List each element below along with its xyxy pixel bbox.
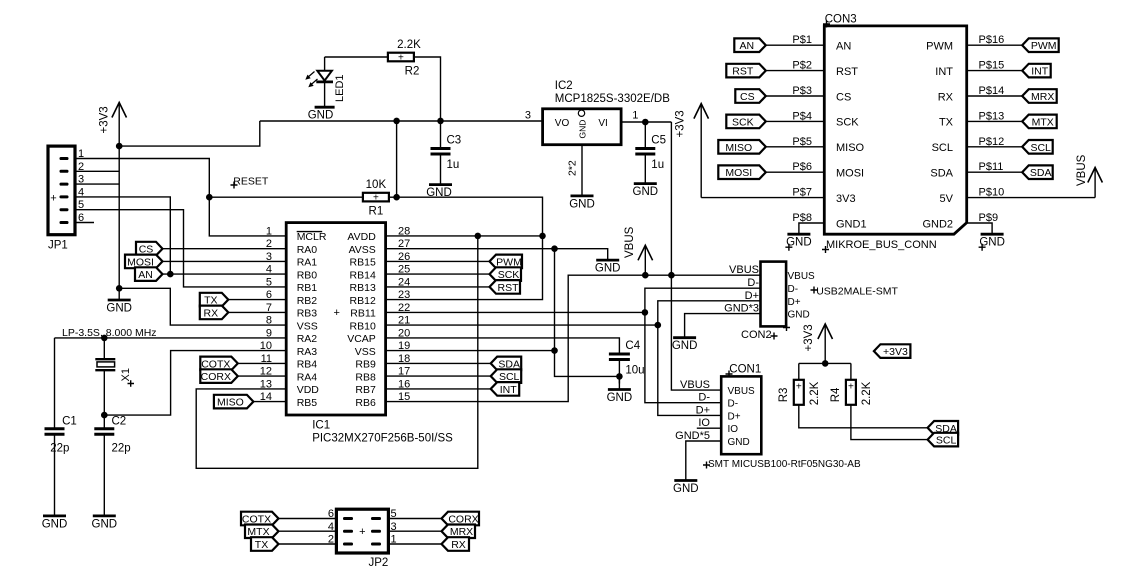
flag INT (RB7) [491,382,520,396]
svg-text:C3: C3 [447,135,462,147]
junction AVDD/VDD loop [475,233,482,240]
svg-text:MOSI: MOSI [725,167,752,179]
junction VSS pin19 node [551,347,558,354]
wire osc2 to IC1 RA3 pin10 [104,351,286,416]
capacitor C2 22p [94,429,114,435]
svg-text:22p: 22p [50,442,69,454]
wire VBUS riser to IC2 VI [670,122,672,275]
svg-text:MCP1825S-3302E/DB: MCP1825S-3302E/DB [555,93,670,105]
flag SDA (CON3) [1022,165,1052,179]
junction D- node [642,309,649,316]
wire R3 to SDA flag [799,405,928,428]
svg-text:RST: RST [498,282,520,294]
wire CON1 IO stub [697,427,721,429]
wire osc1 down to C1 [54,338,56,429]
capacitor C3 1u [431,135,462,172]
junction osc1/X1 [101,335,108,342]
svg-text:GND*5: GND*5 [675,430,710,442]
svg-text:PIC32MX270F256B-50I/SS: PIC32MX270F256B-50I/SS [312,433,453,445]
svg-text:CS: CS [836,91,851,103]
wire JP2 pin5 to CORX [388,518,441,520]
wire RB10 D+ net [386,324,658,326]
svg-text:2.2K: 2.2K [861,381,873,405]
wire +3V3 to R3 [799,362,851,364]
flag TX (to RB2) [200,293,229,307]
svg-text:SDA: SDA [1030,167,1052,179]
svg-text:PWM: PWM [926,41,953,53]
svg-text:RB4: RB4 [297,359,318,371]
wire riser R1 to +3V3 top rail [396,121,398,197]
wire CON3 P$2 [766,70,825,72]
flag MTX (CON3) [1022,115,1056,129]
svg-text:2.2K: 2.2K [397,39,421,51]
ground below IC2 [569,196,595,211]
wire R3 top stub [798,363,800,380]
wire IC1 VDD pin13 +3V3 return loop [196,236,478,468]
svg-text:RB10: RB10 [350,320,376,332]
wire CON3 P$14 [967,95,1023,97]
flag SDA (pullup) [928,421,959,435]
flag MRX (CON3) [1022,89,1056,103]
svg-text:3: 3 [525,110,531,122]
wire +3V3 to CON3 3V3 pin [701,197,824,199]
svg-text:+3V3: +3V3 [675,110,687,137]
ground CON1 [673,481,699,496]
wire R2 right to rail [414,57,441,121]
svg-text:MCLR: MCLR [297,231,327,243]
ground CON3 GND1 [785,234,811,251]
wire MISO to IC1 pin14 [253,401,286,403]
svg-text:CON1: CON1 [729,364,761,376]
svg-text:RB5: RB5 [297,397,318,409]
wire D+ up to CON2 [658,301,761,325]
wire JP2 pin3 to MRX [388,530,441,532]
svg-text:VBUS: VBUS [680,379,710,391]
wire IC1 AVDD pin28 to +3V3 [386,235,543,237]
svg-text:RB12: RB12 [350,295,376,307]
svg-text:MISO: MISO [836,142,865,154]
svg-text:P$10: P$10 [979,187,1005,199]
svg-text:SCK: SCK [732,116,754,128]
svg-text:TX: TX [255,539,268,551]
svg-text:+: + [359,526,365,538]
svg-text:USB2MALE-SMT: USB2MALE-SMT [816,286,898,298]
svg-text:GND: GND [672,340,698,352]
svg-text:RA3: RA3 [297,346,318,358]
svg-text:+: + [333,307,339,319]
svg-text:SCK: SCK [836,117,859,129]
wire CON3 P$16 [967,44,1023,46]
wire CON3 P$9 to ground [967,223,992,234]
svg-text:JP1: JP1 [48,240,68,252]
flag SDA (RB9) [491,357,522,371]
svg-text:VBUS: VBUS [728,386,756,397]
svg-text:LED1: LED1 [334,74,346,102]
svg-text:SMT MICUSB100-RtF05NG30-AB: SMT MICUSB100-RtF05NG30-AB [708,459,861,470]
power +3V3 (top left) [99,103,127,147]
flag SCL (pullup) [928,433,959,447]
svg-text:P$3: P$3 [792,85,812,97]
svg-text:P$11: P$11 [979,161,1004,173]
flag RX (to RB3) [200,306,229,320]
flag +3V3 (net label) [874,344,911,358]
flag MISO (to RB5) [214,395,254,409]
label MIKROE_BUS_CONN [822,246,829,253]
flag TX (JP2) [251,537,279,551]
svg-text:RB14: RB14 [350,269,376,281]
resistor R1 10K [363,179,389,218]
svg-text:+3V3: +3V3 [883,346,908,358]
wire CON2 GND*3 to ground [685,314,761,338]
ground below LED1 [315,106,335,108]
svg-text:+3V3: +3V3 [803,324,815,351]
svg-text:D+: D+ [745,290,759,302]
svg-text:GND: GND [607,392,633,404]
svg-text:AVSS: AVSS [349,244,376,256]
svg-text:RX: RX [938,91,954,103]
wire RESET down to IC1 MCLR [209,197,286,236]
svg-text:VBUS: VBUS [1076,154,1088,186]
svg-text:RA4: RA4 [297,371,318,383]
junction D+ node [655,322,662,329]
wire RB8 to SCL flag [386,375,491,377]
svg-text:GND: GND [788,310,810,321]
label USB2MALE-SMT [811,287,818,294]
svg-text:MTX: MTX [1032,116,1054,128]
svg-text:JP2: JP2 [369,557,389,569]
flag SCK (CON3) [726,115,766,129]
svg-text:GND1: GND1 [836,218,867,230]
flag PWM (RB15) [490,255,523,269]
svg-text:R4: R4 [830,387,842,402]
flag CS (CON3) [735,89,766,103]
wire IC2 VI pin1 to VBUS riser [621,121,671,123]
wire RB6 pin15 to VBUS rail [386,275,761,401]
wire AVSS riser to VSS pin19 [386,249,555,351]
wire R4 to SCL flag [851,405,928,440]
flag SCK (RB14) [490,267,522,281]
svg-text:AN: AN [740,40,755,52]
wire RB7 to INT flag [386,388,491,390]
svg-text:RB13: RB13 [350,282,376,294]
svg-text:GND: GND [595,263,621,275]
svg-text:GND: GND [308,110,334,122]
svg-text:VI: VI [598,118,607,129]
svg-text:P$1: P$1 [792,34,812,46]
svg-text:1u: 1u [651,159,664,171]
svg-text:MIKROE_BUS_CONN: MIKROE_BUS_CONN [826,239,937,251]
flag CS (to RA0) [136,242,163,256]
svg-text:GND: GND [426,187,452,199]
power +3V3 (R3/R4) [803,324,833,363]
svg-text:RB8: RB8 [355,371,376,383]
svg-text:+: + [796,381,802,392]
power +3V3 (near CON3) [675,104,709,198]
svg-text:SCL: SCL [936,435,957,447]
capacitor C5 1u [635,135,666,172]
svg-text:3V3: 3V3 [836,193,856,205]
svg-text:P$4: P$4 [792,110,812,122]
wire JP1 pin2 to +3V3 [75,170,119,172]
svg-text:CS: CS [740,91,755,103]
power VBUS (middle) [624,226,653,275]
junction VBUS arrow node [642,272,649,279]
svg-text:RX: RX [204,307,219,319]
wire TX to JP2 pin2 [279,543,337,545]
wire AN to IC1 pin4 [163,273,287,275]
svg-text:1: 1 [266,225,272,237]
junction VBUS IC2/CON1 node [668,272,675,279]
flag MOSI (to RA1) [125,255,163,269]
wire R1 to +3V3 riser [389,196,397,198]
wire CON3 P$3 [766,95,825,97]
flag PWM (CON3) [1022,38,1058,52]
wire X1 top [103,338,105,359]
svg-text:10u: 10u [625,365,644,377]
resistor R2 2.2K [388,39,421,78]
wire TX to IC1 pin6 [228,299,286,301]
svg-text:+: + [373,193,379,204]
wire RB11 D- net [386,311,645,313]
svg-text:GND: GND [633,186,659,198]
wire CON3 P$11 [967,171,1023,173]
wire RESET to R1 [209,196,363,198]
svg-text:RB3: RB3 [297,308,318,320]
svg-text:AN: AN [836,41,851,53]
wire MOSI to IC1 pin3 [163,260,287,262]
label SMT MICUSB100-RtF05NG30-AB [703,462,710,469]
svg-text:P$12: P$12 [979,136,1005,148]
flag AN (to RB0) [135,267,163,281]
svg-text:RB7: RB7 [355,384,376,396]
flag SCL (CON3) [1022,140,1052,154]
wire MTX to JP2 pin4 [279,530,337,532]
wire RB9 to SDA flag [386,362,491,364]
svg-text:P$2: P$2 [792,60,812,72]
resistor R4 2.2K [830,380,873,406]
svg-text:RB6: RB6 [355,397,376,409]
svg-text:GND: GND [728,437,750,448]
flag RST (RB13) [490,280,521,294]
svg-text:VBUS: VBUS [788,271,816,282]
wire COTX to IC1 pin11 [238,362,286,364]
svg-text:+: + [50,193,56,205]
svg-text:MOSI: MOSI [836,168,864,180]
flag MTX (JP2) [245,525,279,539]
svg-text:C1: C1 [62,416,77,428]
svg-text:IC1: IC1 [312,420,330,432]
wire C3 top [440,121,442,149]
svg-text:P$14: P$14 [979,85,1005,97]
wire +3V3 to rail riser [119,121,260,146]
junction AVSS/VSS riser [551,245,558,252]
regulator IC2 MCP1825S [543,109,622,145]
wire CON1 GND*5 to ground [686,441,721,481]
junction rail/R1 riser [393,118,400,125]
flag CORX (JP2) [442,512,480,526]
wire RA2/osc line [55,337,287,339]
flag COTX (JP2) [241,512,279,526]
flag CORX (to RA4) [200,369,238,383]
ground AVSS [595,260,621,275]
svg-text:22p: 22p [112,442,131,454]
wire CON3 P$6 [766,171,825,173]
svg-text:2.2K: 2.2K [809,381,821,405]
svg-text:VDD: VDD [297,384,320,396]
junction C5 node [642,119,649,126]
svg-text:TX: TX [939,117,954,129]
svg-text:P$15: P$15 [979,60,1005,72]
svg-text:VCAP: VCAP [347,333,376,345]
svg-text:GND: GND [577,120,587,139]
svg-text:VSS: VSS [355,346,376,358]
wire VCAP pin20 to C4 [386,338,620,354]
capacitor C4 10u [609,340,645,377]
wire CON3 P$1 [766,44,825,46]
svg-text:GND: GND [106,303,132,315]
wire RX to IC1 pin7 [228,311,286,313]
svg-text:PWM: PWM [1031,40,1057,52]
svg-text:RB11: RB11 [350,308,376,320]
svg-text:RA0: RA0 [297,244,318,256]
svg-text:RB9: RB9 [355,359,376,371]
svg-text:RST: RST [732,66,754,78]
svg-text:GND2: GND2 [922,218,953,230]
svg-text:RESET: RESET [233,176,269,188]
svg-text:X1: X1 [120,368,132,381]
svg-text:D-: D- [698,392,710,404]
svg-text:RX: RX [451,539,466,551]
ground below C3 [429,154,452,185]
svg-text:C2: C2 [112,416,127,428]
wire R4 top stub [850,363,852,380]
svg-text:RA2: RA2 [297,333,318,345]
svg-text:P$5: P$5 [792,136,812,148]
svg-text:P$13: P$13 [979,110,1005,122]
connector CON3 MIKROE_BUS_CONN [824,26,966,234]
wire CON3 P$10 to VBUS [967,197,1095,199]
ground CON3 GND2 [979,234,1005,251]
flag SCL (RB8) [491,369,522,383]
wire C1 to ground [54,434,56,516]
svg-text:MRX: MRX [1031,91,1054,103]
svg-text:P$8: P$8 [792,212,812,224]
ground below C4 [607,376,633,404]
junction X1/C2/RA3 [101,412,108,419]
svg-text:5V: 5V [940,193,954,205]
svg-text:RST: RST [836,66,858,78]
wire JP1 pin4 to AN net [75,197,170,274]
ground below C5 [633,154,659,198]
wire C4 bottom [618,360,620,384]
svg-text:VBUS: VBUS [624,226,636,258]
wire +3V3 vertical at JP1 (pin2 up / pin3 down to GND) [118,146,120,288]
svg-text:RB2: RB2 [297,295,318,307]
flag MRX (JP2) [442,525,476,539]
wire CON3 P$15 [967,70,1023,72]
svg-text:1: 1 [632,110,638,122]
svg-text:INT: INT [935,66,953,78]
svg-text:INT: INT [500,384,518,396]
flag RST (CON3) [726,64,766,78]
wire COTX to JP2 pin6 [279,518,337,520]
svg-text:D+: D+ [696,404,710,416]
wire CON3 P$4 [766,120,825,122]
svg-text:C5: C5 [651,135,666,147]
svg-text:SCL: SCL [932,142,953,154]
svg-text:R2: R2 [405,66,420,78]
svg-text:IO: IO [698,417,710,429]
wire RB15 to PWM flag [386,260,490,262]
connector JP2 [336,509,388,569]
svg-text:+: + [398,53,404,64]
svg-text:GND: GND [92,518,118,530]
wire CS to IC1 pin2 [163,248,287,250]
svg-text:D+: D+ [788,297,801,308]
wire +3V3 y197 rail to AVDD riser [397,197,543,236]
wire RB14 to SCK flag [386,273,490,275]
capacitor C1 22p [45,429,65,435]
svg-text:IO: IO [728,424,739,435]
connector CON1 micro-USB [721,376,761,454]
LED LED1 [305,57,346,107]
svg-text:GND: GND [569,198,595,210]
flag MISO (CON3) [718,140,766,154]
svg-text:CORX: CORX [201,371,231,383]
wire CON3 P$5 [766,146,825,148]
svg-text:+: + [848,381,854,392]
wire D+ down to CON1 [658,325,721,415]
wire X1 bottom to C2 [103,370,105,429]
svg-text:MISO: MISO [725,142,752,154]
wire LED1 anode to R2 [325,56,388,58]
wire C2 to ground [103,434,105,516]
ground below JP1 [106,288,132,314]
svg-text:D+: D+ [728,411,741,422]
junction RESET node [206,194,213,201]
wire RB13 to RST flag [386,286,490,288]
svg-text:P$16: P$16 [979,34,1005,46]
svg-text:GND: GND [673,483,699,495]
junction R1/+3V3 corner [393,194,400,201]
svg-text:MISO: MISO [217,397,244,409]
svg-text:5: 5 [266,276,272,288]
wire CON3 P$8 to ground [799,223,824,234]
ground CON2 [672,338,698,353]
flag COTX (to RB4) [200,357,238,371]
svg-text:+3V3: +3V3 [99,106,111,133]
wire D- down to CON1 [645,312,721,402]
svg-text:VO: VO [555,118,570,129]
svg-text:GND*3: GND*3 [724,303,759,315]
svg-text:AN: AN [138,269,153,281]
wire CORX to IC1 pin12 [238,375,286,377]
wire VSS to C4 ground run [555,351,620,377]
wire JP1 pin1 to RESET node [75,159,209,198]
svg-text:D-: D- [747,277,759,289]
svg-text:SCL: SCL [1030,142,1051,154]
junction GND node below JP1 [116,285,123,292]
svg-text:RB1: RB1 [297,282,318,294]
wire JP1 pin5 to RB1 [75,210,286,287]
wire JP2 pin1 to RX [388,543,441,545]
svg-text:SDA: SDA [930,168,953,180]
connector CON2 USB2MALE-SMT [761,262,816,331]
svg-text:P$6: P$6 [792,161,812,173]
wire CON3 P$13 [967,120,1023,122]
junction R3/R4 +3V3 [822,360,829,367]
junction AVDD/+3V3 from R1 [539,233,546,240]
